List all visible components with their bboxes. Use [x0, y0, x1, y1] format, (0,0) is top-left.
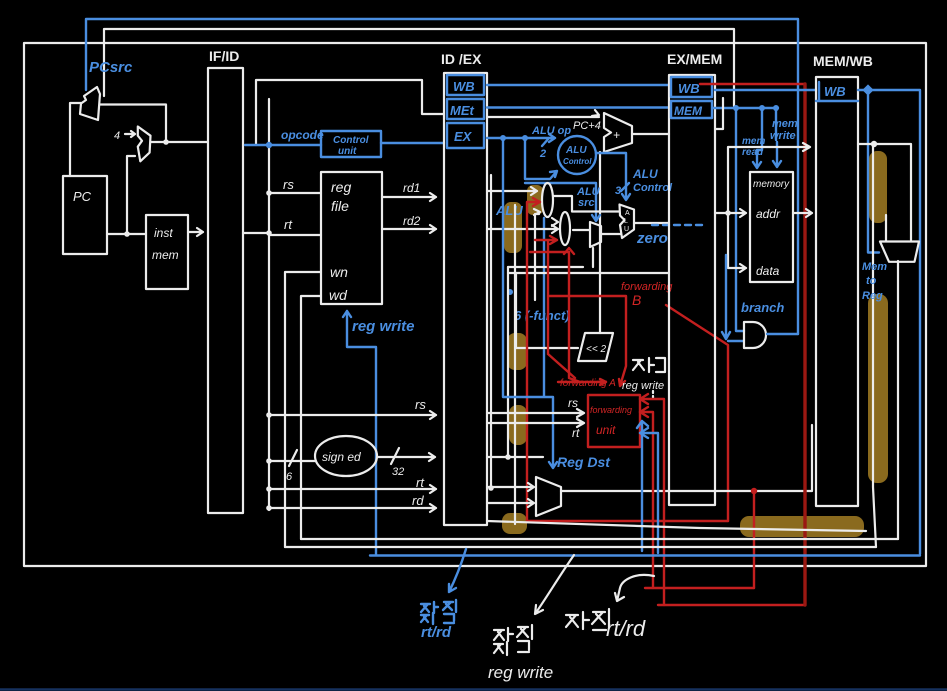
width slash 6	[289, 450, 297, 466]
svg-text:Control: Control	[333, 135, 369, 146]
node: rt junction	[266, 230, 272, 236]
svg-text:unit: unit	[338, 146, 357, 157]
wire: WB blue ID/EX to EX/MEM	[487, 84, 669, 86]
data memory	[750, 172, 793, 282]
wire: memory data out	[793, 209, 812, 217]
wire: rs row to ID/EX	[269, 411, 436, 419]
svg-text:forwarding A: forwarding A	[560, 378, 616, 389]
wire: branch target to EX/MEM	[632, 133, 669, 135]
wire: control unit to ID/EX EX	[381, 142, 444, 144]
node: route junction	[488, 485, 494, 491]
wire: red feedback into forwarding unit upper	[640, 394, 664, 605]
wire: bottom dark blue edge	[0, 688, 947, 691]
svg-text:L: L	[624, 218, 628, 225]
wire: instruction distribution bus	[268, 99, 270, 510]
wire: wrap row through tan bar	[487, 521, 866, 531]
label 직접 reg write (white note)	[622, 358, 665, 398]
mux RegDst	[536, 477, 561, 516]
wire: red row to muxes	[527, 520, 728, 522]
wire: forward red to mux B bottom	[530, 248, 580, 382]
highlight bar near ALU input A	[527, 185, 543, 215]
wire: rd2 out	[382, 225, 436, 233]
wire: RegDst control blue	[503, 138, 557, 468]
svg-text:ALU: ALU	[632, 167, 658, 181]
highlight bar near ALU input B	[504, 202, 522, 253]
svg-text:memory: memory	[753, 179, 790, 190]
svg-text:reg write: reg write	[488, 663, 553, 682]
svg-text:U: U	[624, 226, 629, 233]
wire: shifted imm up to adder	[599, 152, 601, 333]
wire: blue drop to RegDst row	[543, 218, 545, 396]
wire: address into memory	[715, 209, 746, 217]
wire: branch-target white feedback line (top)	[104, 29, 734, 106]
svg-text:MEM: MEM	[674, 104, 703, 118]
wire: blue write-back row	[370, 554, 920, 556]
wire: imm32 out	[377, 453, 435, 461]
wire: forward A red to mux A	[527, 198, 540, 521]
wire: wrap row wn	[285, 546, 876, 548]
wire: imm16 in	[269, 460, 315, 462]
wire: ALU result to EX/MEM	[634, 222, 669, 224]
svg-text:3: 3	[615, 185, 621, 197]
ALU	[620, 205, 635, 239]
node: rd junction	[266, 505, 272, 511]
svg-text:rt/rd: rt/rd	[606, 616, 646, 641]
svg-text:rd2: rd2	[403, 214, 421, 228]
svg-text:2: 2	[539, 148, 546, 160]
wire: blue feedback into forwarding unit 2	[640, 428, 658, 553]
shift left 2	[578, 333, 613, 361]
wire: rs to forwarding unit	[487, 409, 584, 417]
svg-text:zero: zero	[636, 230, 668, 247]
wire: ALU src arrow	[525, 183, 600, 221]
svg-text:Reg: Reg	[862, 290, 883, 302]
highlight vertical bar right upper	[869, 151, 887, 223]
wire: PC+4 into mux PCsrc	[100, 105, 166, 143]
wire: IF/ID to ID/EX upper bypass	[256, 80, 444, 145]
svg-text:PC+4: PC+4	[573, 120, 601, 132]
node: mem ctl junction 1	[733, 105, 739, 111]
wire: writeback data wrap to wd	[301, 296, 321, 539]
wire: rd to RegDst mux	[487, 499, 534, 507]
highlight bar mid-left 2	[509, 405, 527, 445]
node: rt2 junction	[266, 486, 272, 492]
annotation: 직직전 reg write (white)	[488, 625, 553, 682]
wire: blue feedback into forwarding unit 1	[637, 421, 648, 551]
wire: AND out to PCsrc blue	[767, 333, 798, 335]
svg-text:6 (-funct): 6 (-funct)	[514, 308, 570, 323]
wire: zero flag (dashed)	[652, 224, 704, 226]
node: dest reg red junction	[751, 488, 757, 494]
node: PC out junction	[124, 231, 130, 237]
wire: red feedback into forwarding unit lower	[640, 407, 653, 588]
mux MemToReg	[880, 242, 919, 262]
wire: mux PCsrc output to PC	[70, 103, 81, 176]
svg-text:Control: Control	[633, 182, 673, 194]
mux ALUsrc	[590, 222, 601, 247]
svg-text:reg: reg	[331, 179, 351, 195]
node: mem ctl junction 2	[759, 105, 765, 111]
highlight horizontal bar bottom right	[740, 516, 864, 537]
wire: wrap row wd	[301, 538, 898, 540]
wire: elbow into forward mux A lower	[534, 209, 540, 300]
wire: red bottom row 605	[658, 604, 805, 606]
wire: rt to RegDst mux	[487, 483, 534, 491]
inst mem	[146, 215, 188, 289]
node: addr junction	[725, 210, 731, 216]
svg-text:B: B	[632, 292, 641, 308]
svg-text:4: 4	[114, 130, 120, 142]
wire: stub above MemToReg mux	[885, 215, 887, 241]
wire: rd1 to forward mux A	[487, 187, 537, 195]
wire: imm32 riser	[507, 267, 509, 457]
branch adder	[604, 113, 632, 152]
svg-text:WB: WB	[824, 84, 846, 99]
wire: store data row	[508, 272, 669, 274]
svg-text:forwarding: forwarding	[590, 405, 632, 415]
svg-text:+: +	[613, 128, 620, 142]
svg-text:unit: unit	[596, 423, 616, 437]
svg-text:to: to	[866, 275, 877, 287]
svg-text:PC: PC	[73, 189, 92, 204]
highlight blob bottom of ID/EX	[502, 513, 527, 534]
node: opcode junction	[266, 142, 272, 148]
wire: mux B out	[573, 229, 589, 231]
svg-text:inst: inst	[154, 226, 173, 240]
wire: imm to shift left 2	[516, 273, 578, 348]
svg-text:data: data	[756, 264, 780, 278]
width slash 2	[542, 138, 549, 146]
wire: PC to adder	[127, 156, 135, 233]
wire: inst mem to IF/ID	[188, 228, 203, 236]
annotation: 직전 rt/rd (white)	[566, 609, 646, 641]
wire: mux A out to ALU	[553, 196, 620, 212]
wire: ALUop lower branch into ALU control	[525, 138, 557, 179]
highlight bar mid-left 1	[507, 333, 527, 370]
node: imm32 junction	[505, 454, 511, 460]
svg-text:rt: rt	[284, 217, 293, 232]
wire: red drop from dest junction	[753, 491, 755, 588]
wire: forward red to mux B left	[535, 236, 575, 378]
svg-text:rs: rs	[283, 177, 294, 192]
svg-text:MEt: MEt	[450, 103, 475, 118]
node: EX ctl junction 1	[500, 135, 506, 141]
ALU control oval	[558, 136, 596, 174]
svg-text:write: write	[770, 130, 796, 142]
node: funct junction blue	[507, 289, 513, 295]
wire: imm32 out of ID/EX	[487, 456, 543, 458]
svg-text:src: src	[578, 197, 595, 209]
svg-text:read: read	[742, 147, 764, 158]
control unit	[321, 131, 381, 157]
annotation: 직직전 rt/rd (blue)	[421, 600, 456, 641]
svg-text:WB: WB	[678, 81, 700, 96]
register file	[321, 172, 382, 304]
svg-text:rs: rs	[568, 396, 578, 410]
svg-text:reg write: reg write	[352, 318, 415, 335]
highlight vertical bar right lower	[868, 294, 888, 483]
annotation: blue arrow bottom	[449, 549, 466, 592]
wire: ALUsrc mux out to ALU	[601, 233, 620, 235]
node: imm junction	[266, 458, 272, 464]
wire: vertical route left of highlights	[490, 175, 492, 487]
pipeline register ID/EX	[444, 73, 487, 525]
wire: opcode to control unit	[245, 144, 321, 146]
svg-text:ID /EX: ID /EX	[441, 51, 482, 67]
wire: instruction out of IF/ID	[243, 232, 269, 234]
wire: WB blue into MemToReg mux left	[868, 94, 879, 253]
node: WB blue junction	[862, 84, 873, 95]
wire: adder out to IF/ID	[151, 141, 208, 143]
svg-text:rt: rt	[572, 426, 580, 440]
wire: mem data down through highlight	[873, 144, 876, 547]
mux PCsrc	[80, 87, 100, 120]
wire: red bottom row 588	[645, 587, 754, 589]
svg-text:rs: rs	[415, 397, 426, 412]
wire: imm row upper	[508, 266, 583, 268]
wire: ALU control to ALU	[596, 153, 630, 200]
svg-text:ALU op: ALU op	[531, 125, 571, 137]
node: EX ctl junction 2	[522, 135, 528, 141]
svg-text:rt/rd: rt/rd	[421, 624, 452, 641]
svg-text:32: 32	[392, 466, 404, 478]
svg-text:rt: rt	[416, 475, 425, 490]
svg-text:forwarding: forwarding	[621, 281, 673, 293]
wire: reg write control (blue)	[343, 311, 415, 555]
svg-text:opcode: opcode	[281, 128, 324, 142]
wire: WB blue EX/MEM to MEM/WB	[715, 89, 816, 91]
svg-text:ALU: ALU	[495, 203, 523, 218]
svg-text:branch: branch	[741, 300, 784, 315]
wire: dest reg number row	[561, 425, 812, 491]
svg-text:mem: mem	[152, 248, 179, 262]
wire: rd1 out	[382, 193, 436, 201]
wire: EX/MEM jog	[716, 98, 723, 129]
annotation: white hook arrow	[615, 575, 654, 601]
wire: rs read row	[269, 192, 321, 194]
forwarding unit	[588, 395, 640, 447]
svg-text:Mem: Mem	[862, 261, 887, 273]
mux forward B (oval)	[560, 212, 570, 245]
svg-text:file: file	[331, 198, 349, 214]
wire: WB blue out of MEM/WB	[858, 90, 920, 554]
svg-text:rd1: rd1	[403, 181, 420, 195]
wire: mem control row	[713, 107, 778, 109]
svg-text:IF/ID: IF/ID	[209, 48, 239, 64]
sign extend	[315, 436, 377, 476]
wire: vertical route through highlights	[514, 205, 516, 524]
wire: PC out	[107, 233, 146, 235]
wire: addr bypass into MEM/WB	[728, 143, 810, 212]
svg-text:reg write: reg write	[622, 380, 664, 392]
wire: red WB forward row	[700, 83, 805, 85]
svg-text:EX/MEM: EX/MEM	[667, 51, 722, 67]
wire: mem read arrow	[736, 108, 744, 331]
wire: rd row to ID/EX	[269, 504, 436, 512]
wire: imm into ALUsrc mux	[592, 248, 594, 267]
svg-text:rd: rd	[412, 493, 424, 508]
adder +4	[114, 127, 151, 162]
svg-text:Control: Control	[563, 157, 592, 166]
wire: store data into memory	[728, 213, 746, 272]
wire: mem data to mux right	[858, 144, 911, 240]
wire: rt to forwarding unit	[487, 419, 584, 427]
svg-text:6: 6	[286, 471, 293, 483]
svg-text:wn: wn	[330, 264, 348, 280]
AND gate branch	[744, 322, 766, 348]
annotation: white arrow bottom middle	[535, 555, 574, 614]
svg-text:Reg Dst: Reg Dst	[557, 454, 611, 470]
svg-text:wd: wd	[329, 287, 348, 303]
node: rs2 junction	[266, 412, 272, 418]
svg-text:A: A	[625, 210, 630, 217]
wire: MemToReg mux out	[897, 261, 899, 539]
wire: rd2 to forward mux B	[487, 218, 558, 233]
wire: MEM blue ID/EX to EX/MEM	[487, 106, 669, 108]
svg-text:PCsrc: PCsrc	[89, 59, 133, 76]
svg-text:EX: EX	[454, 129, 473, 144]
wire: red WB vertical (thick)	[803, 84, 806, 605]
width slash 32	[391, 448, 399, 464]
wire: rt read row	[269, 234, 321, 236]
wire: EX control fanout (blue)	[487, 134, 555, 142]
svg-text:ALU: ALU	[565, 145, 587, 156]
node: rs junction	[266, 190, 272, 196]
wire: PC+4 to branch adder	[487, 110, 599, 117]
pipeline register EX/MEM	[669, 75, 715, 505]
register PC	[63, 176, 107, 254]
wire: forwarding B to lower red loop	[666, 305, 728, 521]
wire: mem write arrow	[773, 108, 781, 167]
pipeline register MEM/WB	[816, 77, 858, 506]
pipeline register IF/ID	[208, 68, 243, 513]
svg-text:sign ed: sign ed	[322, 450, 361, 464]
wire: rt row to ID/EX	[269, 485, 436, 493]
svg-text:MEM/WB: MEM/WB	[813, 53, 873, 69]
wire: writeback number wrap to wn	[285, 272, 321, 547]
wire: PCsrc feedback (blue top line)	[86, 19, 798, 334]
svg-text:<< 2: << 2	[586, 344, 606, 355]
outer border frame	[24, 43, 926, 566]
node: PC+4 junction	[163, 139, 169, 145]
wire: zero into AND gate	[722, 255, 743, 341]
wire: forwarding B red	[548, 296, 626, 386]
svg-text:WB: WB	[453, 79, 475, 94]
node: mem data junction	[871, 141, 877, 147]
svg-text:addr: addr	[756, 207, 781, 221]
mux forward A (oval)	[542, 183, 553, 217]
